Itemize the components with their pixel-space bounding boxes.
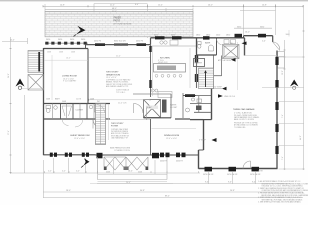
- svg-text:3050: 3050: [237, 26, 241, 28]
- left edge dim vertical: [10, 37, 12, 174]
- bath sink: [209, 45, 214, 51]
- svg-text:16'-0": 16'-0": [245, 32, 250, 34]
- dim ext vertical x147.5: [147, 4, 149, 38]
- kitchen window labels: [154, 34, 240, 36]
- kitchen wall lower continues: [196, 56, 198, 89]
- svg-text:9'-0": 9'-0": [252, 182, 256, 184]
- porch dim ext: [97, 160, 99, 174]
- left inner dim vertical: [24, 95, 26, 173]
- bath right wall: [216, 38, 218, 55]
- garage door ext lines: [208, 172, 210, 184]
- svg-text:12'-0" x 14'-0": 12'-0" x 14'-0": [166, 138, 177, 140]
- svg-text:89'-4": 89'-4": [165, 195, 170, 197]
- svg-text:48'-0": 48'-0": [112, 8, 117, 10]
- right edge inner dim: [284, 40, 286, 170]
- garage right wall pilasters: [275, 57, 278, 154]
- pantry box: [194, 59, 205, 67]
- foyer opening line: [106, 119, 151, 121]
- kitchen island: [154, 64, 186, 73]
- garage door posts: [205, 167, 260, 172]
- dim line top inner: [94, 3, 148, 5]
- french door X left: [104, 157, 126, 170]
- svg-text:21'-4": 21'-4": [116, 56, 121, 58]
- bottom dim row 1: [11, 172, 201, 174]
- butler sink circles: [151, 89, 154, 92]
- great room left jog wall: [85, 45, 87, 49]
- svg-text:10'-0": 10'-0": [10, 39, 15, 41]
- bath2 bottom wall segment: [175, 118, 190, 120]
- hall walls verticals: [170, 94, 172, 118]
- svg-text:NOTE:: NOTE:: [258, 171, 264, 173]
- right top window blocks: [235, 34, 267, 38]
- partitions: [61, 104, 101, 120]
- svg-text:9070 OH DR: 9070 OH DR: [250, 174, 261, 176]
- garage left wall jog at y119.6: [204, 119, 212, 121]
- svg-text:5'-2": 5'-2": [76, 171, 80, 173]
- mud bench X box: [223, 45, 240, 59]
- kitchen interior dim line: [189, 48, 191, 88]
- svg-text:DINING ROOM: DINING ROOM: [164, 135, 179, 137]
- bottom dim text: [48, 171, 256, 198]
- great room top wall: [86, 44, 151, 46]
- svg-text:10'-8": 10'-8": [262, 4, 267, 6]
- svg-text:9'-0": 9'-0": [228, 182, 232, 184]
- svg-text:4050 FX: 4050 FX: [160, 160, 168, 162]
- garage left wall lower (x198.5): [198, 150, 200, 169]
- dim ext vertical x166: [165, 8, 167, 38]
- entry corner wall down: [272, 36, 274, 42]
- svg-text:BATH: BATH: [205, 41, 211, 44]
- svg-text:AND RAISED HEARTH TYP.: AND RAISED HEARTH TYP.: [106, 85, 129, 88]
- kitchen right wall: [196, 38, 198, 56]
- svg-text:20'-0": 20'-0": [126, 182, 131, 184]
- keynote arrow below box: [231, 58, 236, 62]
- great room / kitchen step wall: [150, 38, 152, 45]
- deck stair dark rail: [38, 52, 40, 72]
- powder partition: [198, 96, 200, 112]
- dim line patio upper: [45, 9, 193, 11]
- great room title: [106, 72, 120, 77]
- entry door arc: [273, 42, 280, 51]
- deck X box: [28, 75, 44, 91]
- front door posts: [97, 153, 103, 159]
- living room right wall: [87, 49, 89, 104]
- svg-text:3050: 3050: [70, 39, 74, 41]
- porch dim line: [98, 174, 167, 176]
- garage top boundary line: [245, 55, 278, 57]
- paver patio hatch: [45, 11, 193, 36]
- powder room walls: [190, 95, 212, 97]
- svg-text:2668: 2668: [71, 52, 75, 54]
- svg-text:7'-4": 7'-4": [282, 156, 284, 160]
- svg-text:2020: 2020: [216, 34, 220, 36]
- svg-text:5'-4": 5'-4": [262, 41, 266, 43]
- north arrow: [16, 79, 25, 87]
- bath2 sink: [186, 108, 190, 112]
- svg-text:28'-0": 28'-0": [66, 190, 71, 192]
- great room window label row: [94, 41, 144, 43]
- foyer notes: [111, 128, 129, 140]
- porch outline: [98, 157, 168, 180]
- right dim ladder rungs: [262, 57, 304, 169]
- svg-text:26'-8": 26'-8": [230, 190, 235, 192]
- svg-text:LIVING ROOM: LIVING ROOM: [62, 76, 77, 78]
- left top small dim line: [2, 41, 28, 43]
- svg-text:PROVIDE 5/8" TYPE X GYP BD: PROVIDE 5/8" TYPE X GYP BD: [234, 122, 258, 124]
- svg-text:4050 FX: 4050 FX: [94, 41, 102, 43]
- dim ext vertical x275.5: [275, 4, 277, 35]
- closet1 hanger rod: [62, 106, 72, 116]
- right top window labels: [237, 26, 266, 42]
- elevator X box: [144, 100, 161, 118]
- svg-text:21'-4": 21'-4": [110, 4, 115, 6]
- top scanner band: [0, 0, 308, 1]
- svg-text:3050: 3050: [154, 34, 158, 36]
- garage bottom wall: [199, 168, 278, 170]
- svg-text:THREE CAR GARAGE: THREE CAR GARAGE: [233, 108, 255, 111]
- left wing window label text row: [46, 39, 85, 41]
- band bottom wall: [44, 118, 111, 120]
- main stair: [96, 104, 106, 145]
- great room interior dim line: [89, 57, 150, 59]
- svg-text:44'-0": 44'-0": [300, 135, 302, 140]
- svg-text:W/ STONE BORDER: W/ STONE BORDER: [114, 24, 133, 26]
- washer dryer boxes: [224, 40, 229, 44]
- dim line right upper second: [240, 10, 276, 12]
- bath bottom wall: [197, 54, 217, 56]
- island inner counter band: [157, 66, 176, 71]
- right edge outer dim: [303, 5, 305, 170]
- svg-text:9'-0": 9'-0": [205, 182, 209, 184]
- patio inner edge line: [45, 13, 193, 15]
- svg-text:12'-6" x 13'-0": 12'-6" x 13'-0": [74, 138, 85, 140]
- bath2 top wall w/ blocks: [183, 95, 196, 97]
- svg-text:21'-4" CLR: 21'-4" CLR: [118, 102, 127, 104]
- elevator label: [146, 106, 158, 109]
- hall top wall: [133, 93, 171, 95]
- svg-text:34'-8": 34'-8": [140, 190, 145, 192]
- bath door arc: [217, 39, 222, 45]
- dim ext vertical x45: [44, 4, 46, 12]
- svg-text:2850: 2850: [196, 34, 200, 36]
- powder fixture dark: [196, 106, 202, 111]
- leader from north arrow: [22, 88, 44, 90]
- left exterior wall: [43, 48, 45, 155]
- svg-text:BATH: BATH: [55, 98, 60, 101]
- svg-text:10'-0": 10'-0": [282, 70, 284, 75]
- laundry right wall (x244.5): [244, 38, 246, 56]
- garage left wall jog2: [199, 149, 204, 151]
- svg-text:9070 OH DR: 9070 OH DR: [227, 174, 238, 176]
- svg-text:3050: 3050: [58, 39, 62, 41]
- svg-text:PAVER: PAVER: [114, 17, 122, 20]
- hall bottom wall: [144, 117, 172, 119]
- garage right wall base: [276, 51, 278, 169]
- porch lower step line: [90, 183, 173, 185]
- bottom dim row garage: [97, 183, 290, 185]
- great room window blocks: [95, 43, 146, 46]
- svg-text:TYP. U.N.O.: TYP. U.N.O.: [116, 92, 126, 94]
- svg-text:15'-4": 15'-4": [158, 4, 163, 6]
- hall closet text: [170, 104, 178, 109]
- svg-text:9070 OH DR: 9070 OH DR: [203, 174, 214, 176]
- dim line top overall: [43, 5, 303, 7]
- garage left wall upper (x211.5): [211, 84, 213, 120]
- kitchen cooktop: [170, 40, 178, 45]
- svg-text:5068: 5068: [62, 101, 66, 103]
- left wing window blocks: [45, 42, 86, 45]
- utility top wall right portion: [244, 35, 273, 37]
- svg-text:W1.4xW1.4 WWM OVER 6 MIL: W1.4xW1.4 WWM OVER 6 MIL: [234, 115, 257, 117]
- guest bedroom window ext lines: [53, 158, 55, 173]
- wc toilet: [46, 106, 51, 109]
- svg-text:4" STEP: 4" STEP: [199, 140, 207, 142]
- guest bedroom window blocks: [50, 153, 89, 157]
- garage title text: [233, 108, 255, 111]
- svg-text:PANTRY: PANTRY: [195, 61, 203, 64]
- svg-text:4050 FX: 4050 FX: [136, 41, 144, 43]
- svg-text:7'-4": 7'-4": [282, 114, 284, 118]
- svg-text:HDWD FLR: HDWD FLR: [158, 62, 168, 64]
- svg-text:9' CLG CARPET: 9' CLG CARPET: [63, 80, 77, 83]
- svg-text:3050: 3050: [260, 26, 264, 28]
- living interior faint dim: [51, 55, 53, 100]
- right mid dim line: [234, 27, 272, 29]
- kitchen tall cabinets on right wall: [195, 55, 198, 82]
- band top wall: [44, 103, 111, 105]
- svg-text:TO DWELLING: TO DWELLING: [234, 127, 246, 129]
- door swing at stair landing: [201, 81, 208, 89]
- dim ext vertical x243.5: [243, 4, 245, 35]
- bottom dim row 2: [43, 191, 303, 193]
- garage left wall mid (x203.5): [203, 120, 205, 150]
- svg-text:COVERED PORCH: COVERED PORCH: [114, 150, 131, 152]
- svg-text:14'-8": 14'-8": [60, 4, 65, 6]
- labels above band: [46, 98, 101, 103]
- chimney dark box: [162, 100, 167, 113]
- powder sink: [191, 98, 194, 101]
- kitchen window blocks: [155, 36, 210, 39]
- svg-text:2468: 2468: [46, 99, 50, 101]
- side stoop outline: [278, 52, 285, 69]
- svg-text:GUEST BEDROOM: GUEST BEDROOM: [70, 135, 90, 137]
- stoop step line: [276, 56, 285, 58]
- dining front windows: [160, 153, 186, 158]
- front wall left segment: [96, 154, 199, 156]
- svg-text:21'-4": 21'-4": [112, 11, 117, 13]
- bath3 fixtures: [89, 105, 93, 109]
- dim line patio lower: [45, 12, 193, 14]
- bath2 toilet: [197, 99, 202, 102]
- garage keynote arrow 2: [212, 138, 217, 142]
- svg-text:2668: 2668: [47, 52, 51, 54]
- back stairs: [199, 68, 214, 89]
- svg-text:8'-0": 8'-0": [135, 4, 139, 6]
- dim ext vertical x94: [93, 4, 95, 14]
- svg-text:CLOSET: CLOSET: [76, 110, 84, 112]
- svg-text:ATTIC ACCESS: ATTIC ACCESS: [218, 59, 232, 62]
- svg-text:4050 FX: 4050 FX: [176, 160, 184, 162]
- left wall ext to bottom dims: [43, 160, 45, 198]
- garage notes text: [234, 112, 259, 129]
- butler counter below kitchen: [158, 92, 172, 98]
- stair arrow: [205, 71, 207, 87]
- french door X right: [126, 157, 148, 170]
- svg-text:FOYER: FOYER: [111, 125, 119, 127]
- svg-text:2668: 2668: [59, 52, 63, 54]
- svg-text:2850: 2850: [206, 34, 210, 36]
- svg-text:ELEV: ELEV: [147, 107, 153, 109]
- keynote arrow below guest windows: [84, 158, 90, 165]
- svg-text:5'-2": 5'-2": [48, 171, 52, 173]
- svg-text:17'-4": 17'-4": [8, 130, 10, 135]
- svg-text:PATIO: PATIO: [114, 20, 121, 23]
- svg-text:5'-2": 5'-2": [62, 171, 66, 173]
- keynote arrow near laundry: [242, 42, 247, 46]
- dim ext vertical x193: [192, 8, 194, 14]
- keynote arrow stair side: [222, 87, 227, 91]
- svg-text:CLOS: CLOS: [76, 99, 82, 101]
- dining interior dim line: [152, 128, 197, 130]
- dim ticks: [43, 5, 303, 7]
- foyer/dining divider: [146, 108, 148, 120]
- wc sink: [54, 106, 58, 110]
- left wing main top wall: [44, 48, 89, 50]
- svg-text:3050: 3050: [46, 39, 50, 41]
- patio label text: [114, 17, 133, 26]
- great room notes: [106, 77, 133, 88]
- keynote arrow 2: [218, 94, 223, 98]
- svg-text:6068: 6068: [138, 171, 142, 173]
- svg-text:3050: 3050: [171, 34, 175, 36]
- svg-text:3050: 3050: [81, 39, 85, 41]
- svg-text:26'-0": 26'-0": [208, 4, 213, 6]
- garage door labels: [203, 174, 261, 176]
- kitchen counter line: [151, 45, 197, 47]
- door arcs below band: [93, 119, 103, 129]
- svg-text:TWO STORY: TWO STORY: [106, 72, 119, 74]
- svg-text:24'-6": 24'-6": [8, 73, 10, 78]
- svg-text:16'-0": 16'-0": [66, 58, 71, 60]
- guest bedroom bottom wall: [44, 154, 96, 156]
- island stools: [155, 74, 182, 77]
- utility step: [243, 36, 245, 39]
- svg-text:6068: 6068: [106, 171, 110, 173]
- hall door arc: [134, 104, 144, 114]
- svg-text:16'-4": 16'-4": [128, 171, 133, 173]
- kitchen top wall: [151, 37, 245, 39]
- left wing window sill row: [45, 42, 88, 44]
- right dim vertical text: [282, 70, 302, 160]
- bath left toilet: [198, 42, 202, 45]
- svg-text:8060 SLD DR: 8060 SLD DR: [114, 41, 126, 43]
- bottom dim row 3: [43, 197, 303, 199]
- great room wall note text: [116, 89, 130, 94]
- stair center rail: [100, 104, 102, 145]
- svg-text:LINE OF CLG: LINE OF CLG: [224, 96, 236, 98]
- deck stairs treads: [28, 51, 43, 73]
- kitchen notes: [158, 60, 168, 64]
- left wing inner text row: [47, 52, 75, 54]
- svg-text:2850: 2850: [226, 34, 230, 36]
- north arrow right: [290, 80, 299, 87]
- kitchen sink circles: [160, 41, 163, 44]
- great room right wall: [150, 45, 152, 97]
- svg-text:OAK HANDRAIL TYP.: OAK HANDRAIL TYP.: [111, 137, 129, 140]
- garage rear door arc: [243, 161, 251, 169]
- foyer title: [111, 123, 124, 128]
- great room lower dim line: [89, 99, 150, 101]
- chase column right of stairs: [205, 56, 222, 89]
- keynote arrow on patio: [76, 26, 86, 35]
